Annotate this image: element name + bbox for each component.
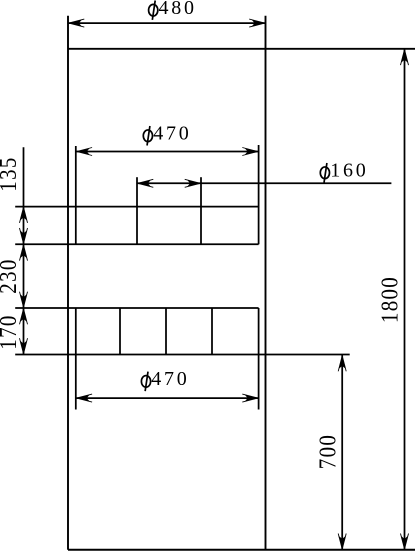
svg-text:470: 470 — [153, 122, 191, 144]
svg-text:160: 160 — [330, 159, 368, 181]
svg-text:480: 480 — [159, 0, 197, 19]
svg-text:170: 170 — [0, 314, 21, 349]
svg-text:470: 470 — [151, 368, 189, 390]
svg-text:1800: 1800 — [376, 276, 403, 323]
svg-text:700: 700 — [314, 434, 341, 469]
svg-text:230: 230 — [0, 258, 21, 293]
svg-text:135: 135 — [0, 156, 21, 191]
